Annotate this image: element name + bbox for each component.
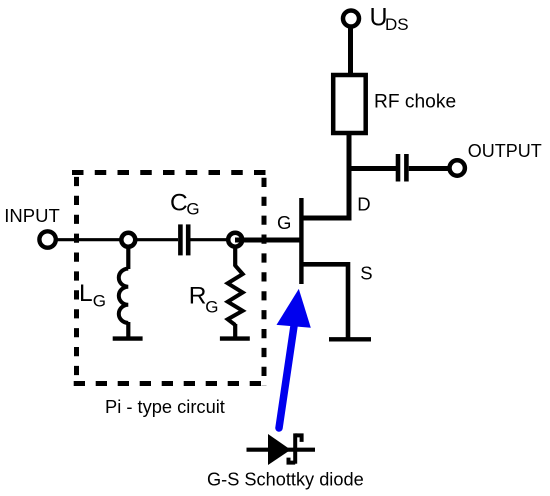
svg-text:R: R xyxy=(189,283,207,310)
svg-text:G: G xyxy=(93,292,106,311)
svg-text:RF choke: RF choke xyxy=(374,91,456,112)
svg-text:C: C xyxy=(170,189,188,216)
svg-text:DS: DS xyxy=(385,15,409,34)
svg-text:OUTPUT: OUTPUT xyxy=(468,141,542,161)
svg-text:D: D xyxy=(357,194,370,215)
svg-text:G: G xyxy=(186,200,199,219)
svg-text:S: S xyxy=(360,263,372,284)
svg-text:G: G xyxy=(205,297,218,316)
svg-text:Pi - type circuit: Pi - type circuit xyxy=(105,396,225,417)
svg-text:INPUT: INPUT xyxy=(4,205,60,226)
svg-text:L: L xyxy=(79,280,93,307)
svg-text:G-S Schottky diode: G-S Schottky diode xyxy=(207,470,364,490)
svg-text:G: G xyxy=(277,212,291,233)
